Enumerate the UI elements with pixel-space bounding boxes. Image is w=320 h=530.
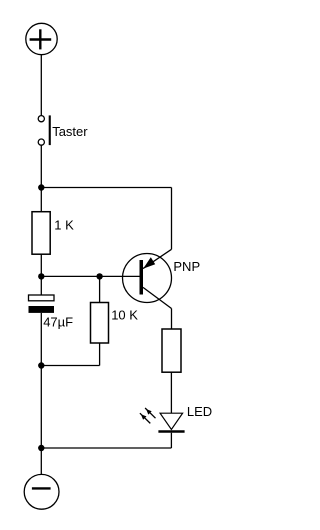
svg-text:10 K: 10 K — [111, 308, 138, 323]
svg-text:PNP: PNP — [173, 259, 200, 274]
svg-text:47µF: 47µF — [43, 315, 73, 330]
svg-text:LED: LED — [187, 404, 212, 419]
svg-text:Taster: Taster — [52, 124, 88, 139]
svg-text:1 K: 1 K — [54, 218, 74, 233]
